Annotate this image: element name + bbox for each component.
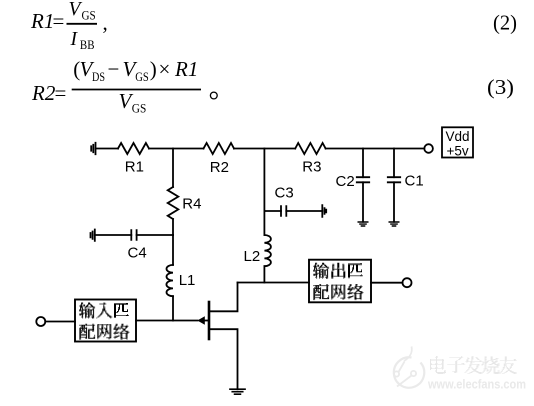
svg-text:C4: C4 (128, 245, 147, 262)
svg-text:,: , (103, 11, 108, 35)
svg-text:×: × (159, 57, 171, 81)
svg-text:R1: R1 (174, 57, 198, 81)
svg-text:(2): (2) (493, 11, 517, 35)
svg-text:L1: L1 (179, 272, 196, 289)
svg-text:BB: BB (80, 37, 95, 52)
svg-text:(3): (3) (487, 75, 514, 99)
svg-text:GS: GS (132, 101, 147, 116)
svg-text:DS: DS (92, 69, 105, 84)
svg-text:+5v: +5v (447, 144, 469, 159)
svg-text:R1: R1 (125, 159, 144, 176)
svg-text:C1: C1 (405, 173, 424, 190)
svg-text:−: − (108, 57, 120, 81)
svg-text:R3: R3 (302, 159, 321, 176)
svg-text:R1: R1 (30, 9, 54, 33)
svg-text:=: = (55, 81, 67, 105)
svg-text:www.elecfans.com: www.elecfans.com (427, 377, 526, 392)
svg-text:): ) (150, 57, 157, 81)
svg-text:R2: R2 (31, 81, 56, 105)
svg-text:GS: GS (82, 8, 96, 23)
svg-text:R2: R2 (210, 159, 229, 176)
svg-text:R4: R4 (182, 196, 201, 213)
svg-text:Vdd: Vdd (446, 129, 470, 144)
svg-text:C2: C2 (336, 173, 355, 190)
svg-text:L2: L2 (244, 248, 261, 265)
svg-text:GS: GS (135, 69, 149, 84)
svg-text:V: V (69, 0, 83, 20)
svg-text:C3: C3 (275, 185, 294, 202)
svg-text:=: = (53, 9, 65, 33)
